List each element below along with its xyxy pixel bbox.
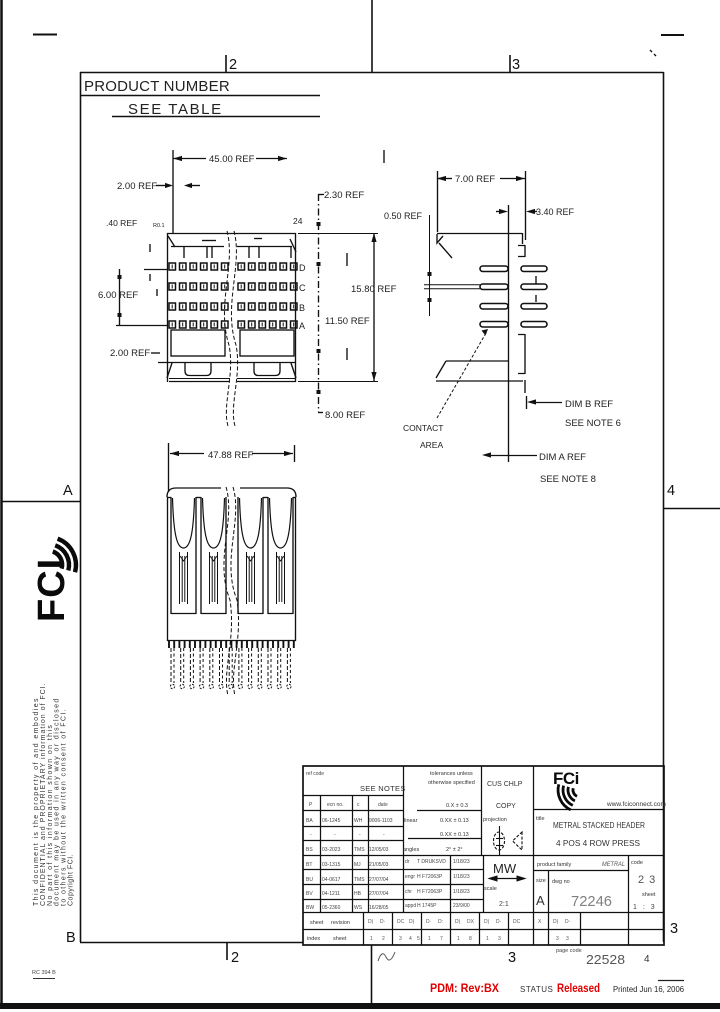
svg-text:DX: DX xyxy=(467,919,475,925)
svg-text:tolerances unless: tolerances unless xyxy=(430,771,473,777)
svg-text:D): D) xyxy=(368,919,374,925)
svg-text:STATUS: STATUS xyxy=(520,985,553,994)
svg-text:7.00 REF: 7.00 REF xyxy=(455,174,495,185)
svg-text:WS: WS xyxy=(354,905,363,911)
svg-text:D·: D· xyxy=(380,919,386,925)
svg-text:PRODUCT NUMBER: PRODUCT NUMBER xyxy=(84,78,230,95)
svg-text:A: A xyxy=(63,483,73,499)
svg-text:3: 3 xyxy=(399,936,402,942)
svg-text:47.88 REF: 47.88 REF xyxy=(208,450,254,461)
svg-text:title: title xyxy=(536,816,545,822)
svg-text:BU: BU xyxy=(306,877,313,883)
svg-text:page code: page code xyxy=(556,948,582,954)
svg-text:BW: BW xyxy=(306,905,314,911)
svg-text:SEE TABLE: SEE TABLE xyxy=(128,101,223,118)
svg-text:72246: 72246 xyxy=(571,893,612,910)
svg-text:MJ: MJ xyxy=(354,862,361,868)
svg-text:D·: D· xyxy=(496,919,502,925)
svg-text:FCi: FCi xyxy=(553,769,579,788)
svg-text:2.00 REF: 2.00 REF xyxy=(110,348,150,359)
svg-text:dr: dr xyxy=(405,859,410,865)
svg-text:TMS: TMS xyxy=(354,877,365,883)
svg-text:2° ± 2°: 2° ± 2° xyxy=(446,847,463,853)
svg-text:1/18/23: 1/18/23 xyxy=(453,889,470,895)
svg-text:engr: engr xyxy=(405,874,415,880)
svg-text:CONTACT: CONTACT xyxy=(403,423,443,433)
svg-text:3: 3 xyxy=(512,57,520,73)
svg-text:Copyright FCI.: Copyright FCI. xyxy=(68,854,75,906)
svg-text:BT: BT xyxy=(306,862,312,868)
svg-text:H F72063P: H F72063P xyxy=(417,889,443,895)
svg-text:3: 3 xyxy=(498,936,501,942)
svg-text:6.00 REF: 6.00 REF xyxy=(98,290,138,301)
svg-text:sheet: sheet xyxy=(642,892,656,898)
svg-text:linear: linear xyxy=(404,818,418,824)
svg-text:B: B xyxy=(299,303,305,313)
svg-text:ref code: ref code xyxy=(306,771,324,777)
svg-text:03-1315: 03-1315 xyxy=(322,862,341,868)
svg-text:2:1: 2:1 xyxy=(499,901,509,908)
svg-text:12/05/03: 12/05/03 xyxy=(369,847,389,853)
svg-text:HB: HB xyxy=(354,891,362,897)
svg-text:8.00 REF: 8.00 REF xyxy=(325,410,365,421)
svg-text:R0.1: R0.1 xyxy=(153,223,165,229)
svg-text:0.X ± 0.3: 0.X ± 0.3 xyxy=(446,803,468,809)
svg-text:dwg no: dwg no xyxy=(552,879,570,885)
svg-text:2: 2 xyxy=(382,936,385,942)
svg-text:BA: BA xyxy=(306,818,313,824)
svg-text:3: 3 xyxy=(566,936,569,942)
svg-text:03-2023: 03-2023 xyxy=(322,847,341,853)
svg-text:BV: BV xyxy=(306,891,313,897)
svg-text:2: 2 xyxy=(231,950,239,966)
svg-text:16/28/05: 16/28/05 xyxy=(369,905,389,911)
svg-text:2 3: 2 3 xyxy=(638,874,656,886)
svg-text:D:: D: xyxy=(438,919,443,925)
svg-text:0.XX ± 0.13: 0.XX ± 0.13 xyxy=(440,832,469,838)
svg-text:0.XX ± 0.13: 0.XX ± 0.13 xyxy=(440,818,469,824)
svg-text:otherwise specified: otherwise specified xyxy=(428,780,475,786)
svg-text:2.30 REF: 2.30 REF xyxy=(324,190,364,201)
svg-text:SEE NOTE 8: SEE NOTE 8 xyxy=(540,474,596,485)
svg-text:04-0617: 04-0617 xyxy=(322,877,341,883)
svg-text:8: 8 xyxy=(469,936,472,942)
svg-text:A: A xyxy=(299,321,305,331)
svg-text:size: size xyxy=(536,878,546,884)
svg-text:RC 394 B: RC 394 B xyxy=(32,970,56,976)
svg-text:chr: chr xyxy=(405,889,412,895)
svg-text:product family: product family xyxy=(537,862,571,868)
svg-text:TMS: TMS xyxy=(354,847,365,853)
svg-text:11.50 REF: 11.50 REF xyxy=(325,316,370,327)
svg-text:1/18/23: 1/18/23 xyxy=(453,874,470,880)
svg-text:CUS CHLP: CUS CHLP xyxy=(487,781,523,788)
svg-text:3: 3 xyxy=(556,936,559,942)
svg-text:projection: projection xyxy=(483,817,507,823)
svg-text:scale: scale xyxy=(484,886,497,892)
svg-text:3.40 REF: 3.40 REF xyxy=(536,207,575,217)
svg-text:H F72063P: H F72063P xyxy=(417,874,443,880)
svg-text:1/18/23: 1/18/23 xyxy=(453,859,470,865)
svg-text:date: date xyxy=(378,802,388,808)
svg-text:06-1245: 06-1245 xyxy=(322,818,341,824)
svg-text:Released: Released xyxy=(557,981,600,995)
svg-text:angles: angles xyxy=(403,847,419,853)
svg-text:METRAL STACKED HEADER: METRAL STACKED HEADER xyxy=(553,821,645,830)
svg-text:C: C xyxy=(299,283,306,293)
svg-text:22528: 22528 xyxy=(586,953,625,967)
svg-text:T DRUKSVD: T DRUKSVD xyxy=(417,859,446,865)
svg-text:4: 4 xyxy=(667,483,675,499)
svg-text:24: 24 xyxy=(293,216,303,226)
svg-text:05-2360: 05-2360 xyxy=(322,905,341,911)
svg-text:PDM: Rev:BX: PDM: Rev:BX xyxy=(430,981,499,995)
svg-text:revision: revision xyxy=(331,920,350,926)
svg-text:DIM B REF: DIM B REF xyxy=(565,399,613,410)
svg-text:SEE NOTE 6: SEE NOTE 6 xyxy=(565,418,621,429)
svg-text:B: B xyxy=(66,930,76,946)
svg-text:15.80 REF: 15.80 REF xyxy=(351,284,397,295)
svg-text:3: 3 xyxy=(670,921,678,937)
svg-text:BS: BS xyxy=(306,847,313,853)
svg-text:code: code xyxy=(631,860,643,866)
svg-text:4 POS 4 ROW PRESS: 4 POS 4 ROW PRESS xyxy=(556,839,640,848)
svg-text:Printed Jun 16, 2006: Printed Jun 16, 2006 xyxy=(613,984,684,994)
svg-text:1: 1 xyxy=(428,936,431,942)
svg-text:21/05/03: 21/05/03 xyxy=(369,862,389,868)
svg-text:D·: D· xyxy=(565,919,571,925)
svg-text:appd: appd xyxy=(405,903,416,909)
svg-text:4: 4 xyxy=(409,936,412,942)
svg-text:ecn no.: ecn no. xyxy=(327,802,343,808)
svg-text:H 1745P: H 1745P xyxy=(417,903,437,909)
svg-text:COPY: COPY xyxy=(496,803,516,810)
svg-text:D): D) xyxy=(484,919,490,925)
svg-text:MW: MW xyxy=(493,861,517,876)
svg-text:3: 3 xyxy=(508,950,516,966)
svg-text:www.fciconnect.com: www.fciconnect.com xyxy=(606,801,666,808)
svg-text:METRAL: METRAL xyxy=(602,861,625,868)
svg-text:D·: D· xyxy=(426,919,432,925)
svg-text:1: 1 xyxy=(486,936,489,942)
svg-text:0.50 REF: 0.50 REF xyxy=(384,211,423,221)
svg-text:SEE NOTES: SEE NOTES xyxy=(360,784,406,793)
svg-text:45.00 REF: 45.00 REF xyxy=(209,154,255,165)
svg-text:DC: DC xyxy=(397,919,405,925)
svg-text:index: index xyxy=(307,936,320,942)
svg-text:2: 2 xyxy=(229,57,237,73)
svg-text:A: A xyxy=(536,893,545,908)
svg-text:5: 5 xyxy=(417,936,420,942)
svg-text:sheet: sheet xyxy=(333,936,347,942)
svg-text:7: 7 xyxy=(440,936,443,942)
svg-text:2.00 REF: 2.00 REF xyxy=(117,181,157,192)
svg-text:27/07/04: 27/07/04 xyxy=(369,877,389,883)
svg-text:1: 1 xyxy=(370,936,373,942)
svg-text:D: D xyxy=(299,263,306,273)
svg-text:WH: WH xyxy=(354,818,363,824)
svg-text:AREA: AREA xyxy=(420,440,443,450)
svg-text:4: 4 xyxy=(644,954,650,965)
svg-text:23/9/00: 23/9/00 xyxy=(453,903,470,909)
svg-text:1: 1 xyxy=(457,936,460,942)
svg-text:.40 REF: .40 REF xyxy=(106,218,137,228)
svg-text:DIM A REF: DIM A REF xyxy=(539,452,586,463)
svg-text:D): D) xyxy=(409,919,415,925)
svg-text:1 : 3: 1 : 3 xyxy=(633,904,657,911)
svg-text:9006-1103: 9006-1103 xyxy=(369,818,393,824)
svg-text:27/07/04: 27/07/04 xyxy=(369,891,389,897)
svg-text:sheet: sheet xyxy=(310,920,324,926)
svg-text:D): D) xyxy=(553,919,559,925)
svg-text:DC: DC xyxy=(513,919,521,925)
svg-text:D): D) xyxy=(455,919,461,925)
svg-text:04-1211: 04-1211 xyxy=(322,891,340,897)
